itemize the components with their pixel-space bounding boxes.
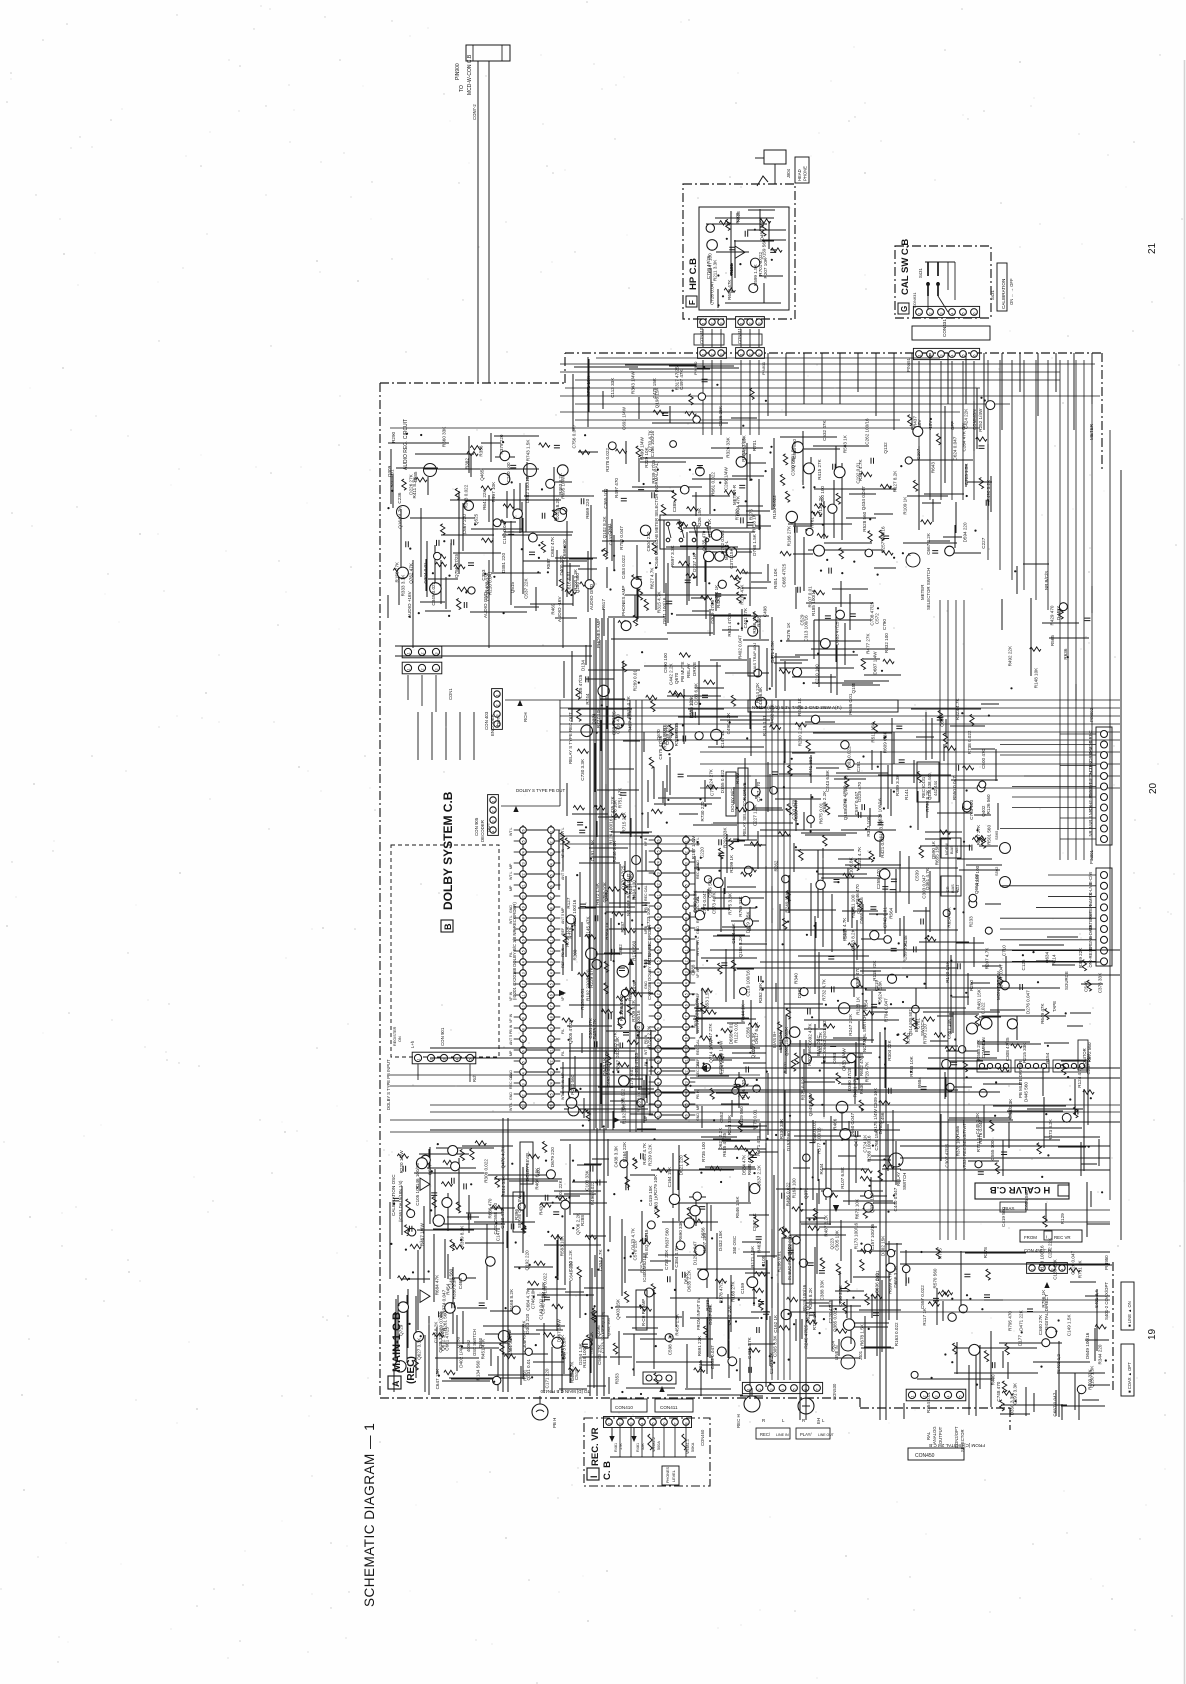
resistor R173 [795,723,806,727]
resistor R882 [755,1272,766,1276]
resistor R776 [1005,1344,1009,1355]
svg-text:3: 3 [720,323,724,325]
svg-text:R164 22K: R164 22K [622,1141,627,1162]
svg-text:R654 47K: R654 47K [947,906,952,927]
svg-text:19: 19 [549,1027,553,1031]
capacitor C108 [468,563,474,566]
resistor R687 [779,832,790,836]
svg-text:2: 2 [619,1423,623,1425]
resistor R601 [1045,1009,1049,1020]
resistor R491 [578,1109,589,1113]
svg-text:R609 6.8K: R609 6.8K [883,731,888,754]
transistor Q532 [561,1200,570,1209]
svg-text:R178 47/25: R178 47/25 [719,1279,724,1303]
svg-text:D660 0.047: D660 0.047 [850,1113,855,1137]
junctions [640,807,885,838]
transistor Q486 [421,1155,431,1165]
transistor Q166 [414,1332,424,1342]
junctions [1010,570,1069,689]
transistor Q442 [751,258,760,267]
svg-text:C164 15K: C164 15K [667,1166,672,1187]
transistor Q658 [750,1183,760,1193]
svg-text:R576 10K: R576 10K [613,799,618,820]
svg-text:SOURCE: SOURCE [1064,971,1069,990]
transistor Q635 [442,1198,452,1208]
svg-text:17: 17 [656,938,660,942]
capacitor C155 [770,250,776,253]
resistor R316 [824,1024,835,1028]
svg-text:R359 3.3K: R359 3.3K [895,773,900,796]
svg-text:CON460: CON460 [700,1429,705,1446]
svg-text:4: 4 [456,1059,460,1061]
svg-text:PIN902: PIN902 [1089,707,1094,722]
capacitor C605 [984,1052,990,1055]
svg-text:C334 4.7K: C334 4.7K [598,1249,603,1272]
transistor Q744 [665,1334,673,1342]
svg-text:9: 9 [549,918,553,920]
transistor Q565 [836,1101,848,1113]
transistor Q620 [635,1022,644,1031]
resistor R212 [741,872,752,876]
svg-text:CON 905: CON 905 [474,817,479,836]
svg-text:TO: TO [459,85,465,92]
svg-text:R481 15K: R481 15K [976,988,981,1009]
junctions [775,830,900,1360]
svg-text:AUDIO -16V: AUDIO -16V [557,596,562,622]
label METER SELECTOR SWITCH [906,552,931,610]
svg-text:D666 3.3K: D666 3.3K [893,1265,898,1288]
resistor R430 [972,838,983,842]
capacitor C742 [682,1272,685,1278]
svg-text:ENCODER: ENCODER [490,714,495,736]
svg-text:R134 560: R134 560 [476,1360,481,1380]
svg-text:R477 27K: R477 27K [865,633,870,654]
svg-text:C220 0.047: C220 0.047 [1070,1251,1075,1275]
svg-text:D534 47K: D534 47K [741,1154,746,1175]
label CON411 box [655,1399,693,1412]
svg-text:R719: R719 [568,927,573,938]
resistor R858 [882,551,893,555]
transistor Q353 [880,869,890,879]
svg-text:C308: C308 [522,1340,527,1351]
svg-text:R497 470: R497 470 [614,478,619,498]
resistor R778 [432,1197,436,1208]
resistor R116 [500,1343,504,1354]
svg-text:C686 2.2K: C686 2.2K [822,790,827,813]
transistor Q739 [581,725,593,737]
svg-text:PB IN: PB IN [696,1089,700,1099]
svg-text:C546: C546 [1084,981,1089,992]
IC201 CX20188 pins right [548,825,565,1110]
svg-text:D332: D332 [797,987,802,998]
capacitor C220 [889,1088,892,1094]
svg-text:18: 18 [656,927,660,931]
svg-text:R589 470: R589 470 [855,967,860,987]
svg-text:R352 22K: R352 22K [758,982,763,1003]
svg-text:Q756 47/25: Q756 47/25 [454,554,459,578]
resistor R370 [731,960,735,971]
wires HP connector stems [703,329,759,435]
resistor R537 [730,575,741,579]
connector CON7-2 TO MCD-W-CON C.B PIN900 [455,45,510,95]
transistor Q707 [613,717,624,728]
resistor R621 [573,806,584,810]
connector PIN1 power [402,646,442,658]
DOLBY dashed region [391,845,499,1057]
svg-text:1: 1 [492,801,496,803]
boxed label CR BIAS ADJ [941,876,961,896]
transistor Q847 [637,1099,645,1107]
svg-text:19: 19 [521,906,525,910]
svg-text:C723 220: C723 220 [601,1333,606,1353]
svg-text:R163 0.022: R163 0.022 [894,1322,899,1346]
wire vr bus [610,1456,696,1458]
svg-text:R649 47K: R649 47K [1040,1003,1045,1024]
transistor Q140 [748,626,758,636]
capacitor C535 [747,523,753,526]
boxed label BIAS TRAP ADJ [748,643,759,676]
resistor R538 [975,1015,979,1026]
boundary main-1 left [379,383,381,1398]
capacitor C602 [510,465,516,468]
svg-text:12: 12 [656,993,660,997]
arrow decoder [513,806,518,812]
svg-text:Q153 8.2K: Q153 8.2K [850,928,855,951]
HP C.B inner board [699,207,789,310]
svg-text:2: 2 [749,354,753,356]
transistor Q408 [744,866,752,874]
resistor R732 [577,710,581,721]
digital direct wires [904,1250,1112,1420]
label REGISTER ON [393,1026,402,1046]
transistor Q571 [889,1153,903,1167]
svg-text:Q514,505,507: Q514,505,507 [908,1009,913,1036]
resistor R356 [903,1033,907,1044]
resistor R882 [945,746,956,750]
svg-text:R728 47K: R728 47K [864,1061,869,1082]
svg-text:D302 15K: D302 15K [881,1235,886,1256]
resistor R680 [577,1267,581,1278]
label RELAY SWITCH [896,1172,907,1190]
svg-text:24: 24 [656,861,660,865]
svg-text:C552 0.047: C552 0.047 [710,1345,715,1369]
svg-text:2: 2 [684,851,688,853]
svg-text:REC/: REC/ [760,1432,771,1437]
svg-text:21: 21 [1147,242,1158,254]
resistor R200 [563,934,567,945]
transistor Q146 [886,1263,895,1272]
svg-text:C249 8.2K: C249 8.2K [769,1352,774,1375]
resistor R318 [504,1354,515,1358]
svg-text:R463 8.2K: R463 8.2K [558,472,563,495]
svg-text:C726 0.047: C726 0.047 [710,281,715,305]
resistor R379 [604,961,608,972]
svg-text:R678 1.5K: R678 1.5K [859,1323,864,1346]
svg-text:10: 10 [521,1005,525,1009]
svg-text:(IC651 DA15/18N 1/4): (IC651 DA15/18N 1/4) [398,1180,403,1222]
capacitor C793 [763,1312,769,1315]
svg-text:7: 7 [816,1389,820,1391]
resistor R660 [749,1152,753,1163]
wires IC201 pin ties [526,830,547,1094]
svg-text:R249 15K: R249 15K [784,891,789,912]
resistor R613 [623,883,627,894]
svg-text:21: 21 [549,1049,553,1053]
transistor Q356 [696,467,705,476]
svg-text:3: 3 [549,852,553,854]
resistor R830 [787,804,791,815]
svg-text:7: 7 [549,896,553,898]
transistor Q294 [1077,1385,1086,1394]
svg-text:R761: R761 [809,517,814,528]
transistor Q230 [985,927,992,934]
transistor Q880 [887,974,896,983]
svg-text:MP: MP [509,863,513,869]
label CON811 [732,327,762,345]
svg-text:PHONE: PHONE [803,166,808,181]
svg-text:D621 220: D621 220 [679,1155,684,1175]
svg-text:R148 10K: R148 10K [1034,667,1039,688]
svg-text:C220 47/25: C220 47/25 [828,1299,833,1323]
capacitor C769 [451,539,454,545]
resistor R665 [579,450,590,454]
transistor Q536 [698,1269,708,1279]
resistor R824 [934,1033,945,1037]
svg-text:C140 560: C140 560 [448,1268,453,1288]
capacitor C356 [979,446,985,449]
resistor R885 [999,977,1003,988]
svg-text:PHONES AMP: PHONES AMP [621,586,626,616]
svg-text:Q503 2SK682K: Q503 2SK682K [784,1027,789,1056]
svg-text:C545 560: C545 560 [708,878,713,898]
junctions [898,841,998,1084]
svg-text:4: 4 [951,355,955,357]
svg-text:R637 560: R637 560 [665,1228,670,1248]
connector to main 3pin [643,1372,676,1384]
right mid sparse wires [1002,564,1092,700]
svg-text:R496 0.022: R496 0.022 [590,1181,595,1205]
svg-text:C505 10K: C505 10K [835,1229,840,1250]
resistor R254 [908,415,912,426]
labels PIN902 nets [1088,730,1093,836]
junctions [578,682,640,829]
svg-text:19: 19 [1147,1328,1158,1340]
svg-text:SWITCH: SWITCH [920,1019,925,1036]
calvr area wires [941,1042,1100,1176]
svg-text:R109 1K: R109 1K [902,496,907,515]
svg-text:C125 47/25: C125 47/25 [578,674,583,698]
capacitor C174 [452,1302,455,1308]
svg-text:C488: C488 [691,964,696,975]
svg-text:C300 560: C300 560 [790,456,795,476]
svg-text:REC CAL: REC CAL [509,1073,513,1089]
svg-text:R795 470: R795 470 [1008,1311,1013,1331]
svg-text:WT L: WT L [509,871,513,880]
transistor Q862 [979,781,986,788]
svg-text:1: 1 [407,669,411,671]
capacitor C258 [580,904,586,907]
transistor Q760 [430,583,442,595]
svg-text:R355: R355 [756,615,761,626]
svg-text:R630: R630 [859,1083,864,1094]
label B DOLBY SYSTEM C.B [441,791,455,932]
svg-text:2: 2 [421,653,425,655]
svg-text:R690 33K: R690 33K [678,1220,683,1241]
capacitor C375 [956,765,959,771]
svg-text:R434: R434 [819,1163,824,1174]
wires to PIN902 [1000,734,1096,839]
svg-text:R127: R127 [566,897,571,908]
svg-text:5: 5 [962,355,966,357]
capacitor C542 [590,1166,593,1172]
top band labels wires [573,357,757,431]
svg-text:R499 1/4W: R499 1/4W [640,436,645,460]
svg-text:R583 10K: R583 10K [560,1235,565,1256]
resistor R845 [861,1169,872,1173]
svg-text:C262 100/16: C262 100/16 [865,418,870,445]
resistor R162 [860,1260,864,1271]
resistor R741 [627,1040,638,1044]
svg-text:D153 560: D153 560 [786,1131,791,1151]
svg-text:SELECTOR SWITCH: SELECTOR SWITCH [926,568,931,610]
svg-text:Q660: Q660 [478,1337,483,1348]
capacitor C350 [554,445,560,448]
capacitor C676 [595,915,598,921]
svg-text:R326 33K: R326 33K [726,436,731,457]
transistor Q467 [851,979,860,988]
transistor Q701 [397,506,410,519]
resistor R502 [586,1110,590,1121]
resistor R535 [836,1264,840,1275]
capacitor C312 [828,957,834,960]
wire trunk right group [940,600,964,1240]
transistor Q278 [979,1089,987,1097]
svg-text:R750 0.047: R750 0.047 [619,526,624,550]
headphone jack J801 [755,150,786,186]
transistor Q855 [398,1302,409,1313]
svg-text:PB IN: PB IN [644,1034,648,1044]
svg-text:R375 0.022: R375 0.022 [800,1076,805,1100]
svg-text:C207: C207 [916,448,921,459]
resistor R304 [826,1193,837,1197]
svg-text:D371 1.5K: D371 1.5K [770,640,775,663]
capacitor C104 [683,736,686,742]
resistor R629 [578,973,589,977]
svg-text:REC CAL: REC CAL [696,1039,700,1055]
resistor R184 [686,573,697,577]
transistor Q270 [647,1221,655,1229]
svg-text:PIN651: PIN651 [906,357,911,372]
svg-text:8: 8 [656,1038,660,1040]
transistor Q258 [945,546,955,556]
svg-text:R166 27K: R166 27K [786,525,791,546]
resistor R883 [820,1258,824,1269]
connector CON901 [412,1052,476,1064]
svg-text:D173 6.8K: D173 6.8K [562,1337,567,1360]
transistor Q502 [865,1191,873,1199]
svg-text:R492 22K: R492 22K [1008,645,1013,666]
resistor R300 [759,1299,763,1310]
capacitor C231 [832,986,835,992]
capacitor C207 [808,1009,811,1015]
svg-text:C597 1K: C597 1K [752,1212,757,1231]
resistor R504 [785,491,789,502]
resistor R518 [441,1182,452,1186]
svg-text:5: 5 [793,1389,797,1391]
svg-text:R197 1/4W: R197 1/4W [691,836,696,860]
svg-text:C126: C126 [1021,959,1026,970]
resistor R178 [942,1290,953,1294]
capacitor C844 [544,1297,550,1300]
svg-text:R686 470: R686 470 [488,1198,493,1218]
svg-text:C624 0.047: C624 0.047 [953,436,958,460]
boxed strip NORM [748,700,898,712]
resistor R853 [521,1222,525,1233]
capacitor C349 [620,793,626,796]
svg-text:4: 4 [656,1082,660,1084]
resistor R389 [869,851,873,862]
svg-text:R252 1/4W: R252 1/4W [978,408,983,432]
transistor Q805 [585,580,594,589]
svg-text:METER-L: METER-L [724,540,729,560]
resistor R485 [414,1359,418,1370]
svg-text:R331 0.01: R331 0.01 [580,988,585,1010]
svg-text:R535 2.2K: R535 2.2K [689,695,694,718]
meter selector wires [602,441,771,640]
transistor Q691 [943,910,950,917]
resistor R132 [651,701,655,712]
capacitor C688 [833,464,836,470]
resistor R405 [718,963,722,974]
resistor R324 [627,1004,631,1015]
transistor Q582 [707,240,718,251]
transistor Q842 [566,915,575,924]
svg-text:C706 470: C706 470 [844,775,849,795]
wire right grid h [560,700,1120,740]
resistor R587 [713,1054,724,1058]
svg-text:C632 47K: C632 47K [822,420,827,441]
transistor Q802 [770,787,778,795]
svg-text:1: 1 [1031,1269,1035,1271]
svg-text:R743 1.5K: R743 1.5K [525,439,530,462]
svg-text:18: 18 [521,917,525,921]
svg-text:22: 22 [656,883,660,887]
svg-text:ANT 5: ANT 5 [561,914,565,924]
transistor Q887 [586,948,597,959]
svg-text:R118 22K: R118 22K [872,960,877,981]
junctions [390,1143,613,1383]
svg-text:R107 6.8K: R107 6.8K [840,1166,845,1189]
transistor Q407 [726,547,736,557]
svg-text:FROM: FROM [1024,1235,1037,1240]
transistor Q764 [631,578,641,588]
svg-text:C518: C518 [574,1369,579,1380]
resistor R355 [541,541,545,552]
transistor Q612 [735,1077,745,1087]
svg-text:R481: R481 [636,1443,640,1452]
capacitor C387 [545,1195,548,1201]
svg-text:4: 4 [951,313,955,315]
svg-text:C236: C236 [397,492,402,503]
svg-text:NR 5: NR 5 [1088,805,1093,815]
transistor Q352 [459,1274,466,1281]
svg-text:ON: ON [398,1036,402,1042]
svg-text:R220 1/4W: R220 1/4W [399,1150,404,1174]
transistor Q712 [913,427,923,437]
svg-text:25: 25 [521,840,525,844]
transistor Q735 [847,1054,856,1063]
svg-text:2: 2 [421,669,425,671]
